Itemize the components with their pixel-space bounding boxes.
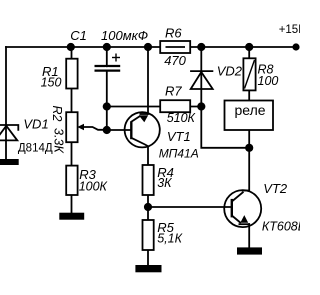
svg-text:100: 100 [258,74,279,88]
svg-text:реле: реле [235,102,266,118]
svg-text:100мкФ: 100мкФ [101,28,148,43]
svg-text:VT2: VT2 [263,181,288,196]
svg-text:+15В: +15В [279,24,300,36]
svg-text:Д814Д: Д814Д [18,143,53,155]
svg-text:150: 150 [41,75,62,89]
svg-text:КТ608Б: КТ608Б [262,219,300,233]
svg-text:100К: 100К [79,179,108,193]
svg-text:VT1: VT1 [167,129,191,144]
svg-text:3.3К: 3.3К [52,128,66,153]
svg-text:5,1К: 5,1К [157,231,182,245]
svg-text:VD2: VD2 [217,63,243,78]
svg-text:470: 470 [164,53,186,68]
svg-text:C1: C1 [70,28,87,43]
svg-text:R6: R6 [165,26,182,41]
svg-text:VD1: VD1 [23,116,48,131]
svg-text:МП41А: МП41А [159,146,199,160]
svg-text:R2: R2 [50,106,64,122]
svg-text:3К: 3К [157,176,172,190]
svg-text:R7: R7 [165,83,182,98]
svg-text:510К: 510К [167,111,196,125]
